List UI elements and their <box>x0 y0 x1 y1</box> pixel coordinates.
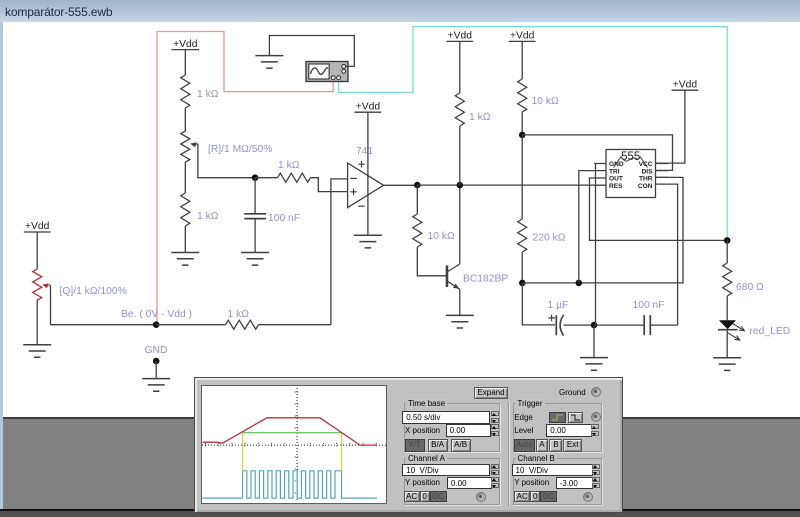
ground (left divider) <box>171 253 199 266</box>
wire node F to R8 <box>726 240 728 263</box>
op-amp inverting marker <box>350 177 357 179</box>
wire 555 CON riser <box>668 184 678 325</box>
svg-text:1 kΩ: 1 kΩ <box>278 160 300 171</box>
power +Vdd symbol (555 VCC) <box>672 79 699 90</box>
wire emitter to ground <box>459 289 461 315</box>
svg-text:10 kΩ: 10 kΩ <box>532 96 559 107</box>
svg-text:[Q]/1 kΩ/100%: [Q]/1 kΩ/100% <box>60 286 127 297</box>
resistor R9 1k (Be series) <box>226 320 259 329</box>
svg-text:THR: THR <box>639 176 653 183</box>
LED D1 red_LED <box>718 320 745 340</box>
ground (op-amp) <box>354 235 382 248</box>
wire LED to ground <box>726 330 728 358</box>
wire node A to R3 <box>255 177 277 179</box>
wire pot R wiper to node A <box>197 144 253 178</box>
wire op-amp output to node B <box>384 184 418 186</box>
wire R5 to node B rail <box>459 126 461 185</box>
svg-text:GND: GND <box>609 161 624 168</box>
resistor R8 680 <box>723 263 732 296</box>
resistor R4 10k (base drive) <box>413 214 422 247</box>
ground (C1) <box>241 253 269 266</box>
power +Vdd symbol (collector pull-up) <box>446 31 473 42</box>
wire: cyan scope channel B net <box>339 27 728 240</box>
node E junction dot (cap/gnd) <box>591 322 598 329</box>
wire node E to ground <box>593 325 595 358</box>
node C junction dot (R6/R7/DIS) <box>519 132 526 139</box>
wire C1 to ground <box>254 219 256 253</box>
potentiometer [Q] 1k (red) <box>33 269 42 300</box>
svg-text:+Vdd: +Vdd <box>448 31 473 42</box>
op-amp U1 741 <box>348 163 384 208</box>
wire node C to R7 <box>521 135 523 219</box>
svg-text:VCC: VCC <box>639 161 653 168</box>
wire GND connector stem <box>155 361 157 379</box>
wire pot Q to ground <box>36 300 38 345</box>
wire 555 OUT to LED node <box>590 178 728 240</box>
wire R4 to base <box>417 247 446 276</box>
svg-text:+Vdd: +Vdd <box>673 79 698 90</box>
wire node A to C1 <box>254 178 256 214</box>
wire pot Q wiper to Be net <box>51 285 157 325</box>
ground (pot Q) <box>23 345 51 358</box>
svg-text:555: 555 <box>621 151 640 163</box>
wire: salmon scope channel A net <box>157 32 333 324</box>
svg-text:TRI: TRI <box>609 168 620 175</box>
svg-text:220 kΩ: 220 kΩ <box>533 233 566 244</box>
node junction dot (collector / pull-up) <box>457 182 464 189</box>
transistor Q1 BC182BP <box>447 264 460 289</box>
power +Vdd symbol (input pot Q) <box>24 221 51 232</box>
pin stubs 555 left <box>594 164 606 186</box>
capacitor C1 100nF <box>244 214 266 219</box>
wire R6 to node C <box>521 112 523 135</box>
svg-text:red_LED: red_LED <box>750 326 791 337</box>
op-amp V- marker <box>358 205 365 207</box>
ground (scope) <box>255 56 283 69</box>
oscilloscope XSC1 icon <box>306 62 348 82</box>
resistor R5 1k (collector pull-up) <box>455 93 464 126</box>
wire R3 to op-amp noninverting input <box>311 178 348 192</box>
pot R wiper arrow <box>190 142 197 147</box>
svg-text:10 kΩ: 10 kΩ <box>428 231 455 242</box>
controls <box>474 387 508 399</box>
wire node C to 555 DIS <box>522 135 672 171</box>
wire node B to R4 <box>416 185 418 214</box>
wire 555 TRI to node D rail <box>579 171 594 283</box>
node junction dot (TRI riser on rail) <box>576 280 583 287</box>
ground (emitter) <box>446 315 474 328</box>
timer U2 555 <box>606 150 656 198</box>
resistor R6 10k (timing) <box>518 79 527 112</box>
svg-text:RES: RES <box>609 183 623 190</box>
op-amp V+ marker <box>358 161 365 168</box>
wire scope ground terminal <box>269 36 354 67</box>
op-amp noninverting marker <box>350 189 357 196</box>
svg-text:+Vdd: +Vdd <box>510 31 535 42</box>
pot Q wiper arrow <box>42 283 50 288</box>
wire 555 GND to node E <box>595 164 597 326</box>
ground (LED) <box>713 358 741 371</box>
power +Vdd symbol (555 timing chain) <box>509 31 536 42</box>
svg-text:DIS: DIS <box>642 168 654 175</box>
wire +Vdd to R5 <box>459 41 461 93</box>
svg-text:CON: CON <box>638 183 653 190</box>
svg-text:1 kΩ: 1 kΩ <box>228 309 250 320</box>
pin stubs 555 right <box>656 164 669 185</box>
wire R8 to LED <box>726 296 728 320</box>
wire node E to C3 <box>594 324 644 326</box>
wire node B to 555 RES <box>417 184 606 186</box>
svg-text:1 kΩ: 1 kΩ <box>197 211 219 222</box>
node F junction dot (OUT / LED / scope B) <box>724 237 731 244</box>
wire node D down to C2 <box>522 283 555 325</box>
svg-text:100 nF: 100 nF <box>268 213 300 224</box>
node B junction dot (op-amp output) <box>414 182 421 189</box>
resistor R3 1k (series to op-amp) <box>278 173 311 182</box>
wire inverting input from Be net <box>331 179 348 325</box>
svg-text:Be. ( 0V - Vdd ): Be. ( 0V - Vdd ) <box>121 309 192 320</box>
svg-text:1 kΩ: 1 kΩ <box>469 112 491 123</box>
svg-text:OUT: OUT <box>609 176 623 183</box>
wire +Vdd to pot Q <box>36 232 38 269</box>
wire R2 to ground <box>184 226 186 253</box>
capacitor C3 100nF (control) <box>644 315 650 335</box>
node D junction dot (timing cap junction) <box>519 280 526 287</box>
svg-text:680 Ω: 680 Ω <box>736 282 764 293</box>
wire op-amp supply rail <box>367 112 369 235</box>
ground (GND net) <box>142 379 170 392</box>
capacitor C2 1uF polarized <box>548 315 563 336</box>
wire R1 to pot R <box>184 108 186 131</box>
resistor R7 220k (timing) <box>518 219 527 252</box>
wire +Vdd to 555 VCC <box>656 90 685 163</box>
wire pot R to R2 <box>184 162 186 193</box>
potentiometer [R] 1M <box>181 131 190 162</box>
svg-text:BC182BP: BC182BP <box>463 274 508 285</box>
power +Vdd symbol (left divider chain) <box>172 39 200 50</box>
svg-text:1 kΩ: 1 kΩ <box>197 89 219 100</box>
resistor R2 1k (bottom of divider) <box>181 193 190 226</box>
svg-text:+Vdd: +Vdd <box>173 39 198 50</box>
wire R7 to node D <box>521 252 523 283</box>
wire C2 to node E <box>564 324 594 326</box>
svg-text:GND: GND <box>145 345 168 356</box>
node G junction dot (Be / scope A) <box>153 321 160 328</box>
svg-text:+Vdd: +Vdd <box>25 221 50 232</box>
ground (node E) <box>580 358 608 371</box>
node dot (GND connector) <box>153 358 160 365</box>
svg-text:1 µF: 1 µF <box>548 300 569 311</box>
wire +Vdd to R6 <box>521 41 523 79</box>
svg-text:100 nF: 100 nF <box>633 300 665 311</box>
wire node G to R9 <box>156 324 225 326</box>
resistor R1 1k (top of divider) <box>181 75 190 108</box>
wire node D rail to THR riser <box>522 177 683 283</box>
svg-text:741: 741 <box>356 146 373 157</box>
wire +Vdd to R1 <box>184 50 186 75</box>
node A junction dot <box>252 174 259 181</box>
wire C3 to CON riser <box>650 324 677 326</box>
wire R9 to inverting input riser <box>259 324 331 326</box>
power +Vdd symbol (op-amp supply) <box>354 101 381 112</box>
wire collector to node B rail <box>459 185 461 264</box>
svg-text:+Vdd: +Vdd <box>356 101 381 112</box>
svg-text:[R]/1 MΩ/50%: [R]/1 MΩ/50% <box>208 144 272 155</box>
